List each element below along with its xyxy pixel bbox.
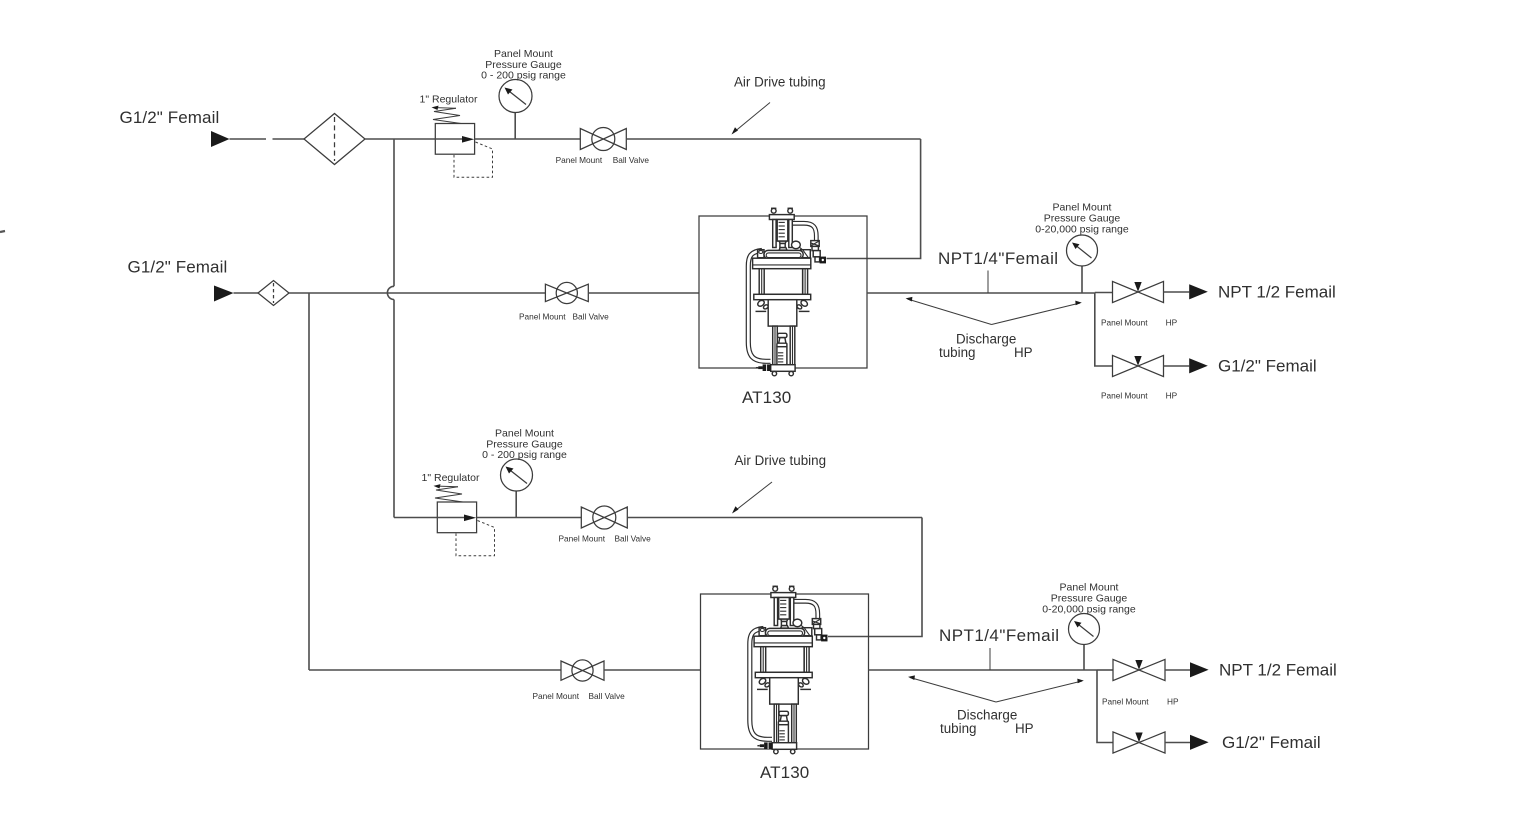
svg-text:0 - 200 psig range: 0 - 200 psig range: [482, 449, 567, 461]
wire discharge 1: [867, 292, 1095, 294]
wire air drive down 1: [827, 139, 921, 259]
svg-text:HP: HP: [1166, 391, 1178, 401]
ball valve BV4: [561, 661, 583, 680]
regulator R2 spring: [435, 487, 463, 502]
ball valve BV1: [580, 129, 603, 150]
wire HP valve4 out: [1165, 742, 1190, 744]
wire HP valve3 out: [1165, 669, 1190, 671]
svg-text:Panel Mount: Panel Mount: [519, 312, 566, 322]
svg-text:1" Regulator: 1" Regulator: [422, 472, 481, 484]
air drive arrow 1: [733, 103, 770, 134]
outlet arrow 3: [1190, 662, 1209, 677]
wire tee to HP valve3: [1097, 669, 1113, 671]
svg-text:Ball Valve: Ball Valve: [615, 534, 652, 544]
gauge PG2: [1067, 235, 1098, 266]
svg-text:AT130: AT130: [760, 763, 809, 782]
svg-text:1" Regulator: 1" Regulator: [420, 94, 479, 106]
svg-text:NPT1/4"Femail: NPT1/4"Femail: [938, 249, 1059, 268]
svg-text:Ball Valve: Ball Valve: [613, 155, 650, 165]
wire inlet 2: [234, 292, 259, 294]
wire branch corner to regulator2: [394, 517, 437, 519]
HP valve V1: [1113, 281, 1139, 302]
outlet arrow 2: [1189, 358, 1208, 373]
wire HP valve2 out: [1164, 365, 1190, 367]
regulator R1 dashed pilot line: [454, 142, 493, 177]
wire regulator1 to ball valve1: [475, 138, 581, 140]
gauge PG3 stem: [515, 491, 517, 518]
wire mid branch to ball valve4: [309, 669, 561, 671]
wire ball valve3 to corner: [627, 517, 922, 519]
HP valve V3: [1113, 659, 1139, 680]
wire ball valve1 to corner: [626, 138, 920, 140]
pump U1 AT130: [748, 208, 826, 375]
wire pump branch vertical (x=309): [308, 293, 310, 670]
wire air branch vertical (x=394) upper: [393, 139, 395, 286]
wire filter2 to ball valve2: [289, 292, 545, 294]
regulator R1 body: [435, 124, 474, 155]
svg-text:0 - 200 psig range: 0 - 200 psig range: [481, 70, 566, 82]
svg-text:tubing: tubing: [940, 721, 976, 736]
HP valve V2: [1113, 355, 1139, 376]
wire hop over mid pipe: [387, 286, 394, 299]
wire inlet 1 segment a: [230, 138, 267, 140]
svg-text:NPT 1/2 Femail: NPT 1/2 Femail: [1219, 661, 1337, 680]
pump U2 AT130: [750, 586, 828, 754]
svg-text:G1/2" Femail: G1/2" Femail: [1222, 733, 1321, 752]
svg-text:G1/2" Femail: G1/2" Femail: [128, 258, 228, 277]
outlet arrow 4: [1190, 735, 1209, 750]
wire HP valve1 out: [1164, 291, 1190, 293]
discharge pointer arrows no.2: [910, 678, 996, 703]
wire air branch vertical (x=394) lower: [393, 300, 395, 518]
svg-text:AT130: AT130: [742, 388, 791, 407]
svg-text:Panel Mount: Panel Mount: [1101, 318, 1148, 328]
svg-text:Panel Mount: Panel Mount: [559, 534, 606, 544]
svg-text:0-20,000 psig range: 0-20,000 psig range: [1042, 603, 1136, 615]
svg-text:Panel Mount: Panel Mount: [1101, 391, 1148, 401]
ball valve BV3: [581, 507, 604, 528]
gauge PG3: [501, 459, 533, 491]
HP valve V4: [1113, 732, 1139, 753]
filter F1: [304, 114, 365, 165]
svg-text:G1/2" Femail: G1/2" Femail: [1218, 357, 1317, 376]
pump1 enclosure box: [699, 216, 867, 368]
svg-text:Air Drive tubing: Air Drive tubing: [735, 453, 827, 468]
svg-text:Ball Valve: Ball Valve: [573, 312, 610, 322]
node tick NPT1/4 no.1: [987, 271, 989, 294]
regulator R2 body: [437, 502, 476, 533]
svg-text:0-20,000 psig range: 0-20,000 psig range: [1035, 223, 1129, 235]
svg-text:Panel Mount: Panel Mount: [533, 691, 580, 701]
filter F2: [258, 281, 289, 306]
node tick NPT1/4 no.2: [989, 648, 991, 670]
gauge PG4: [1069, 614, 1100, 645]
ball valve BV2: [545, 284, 566, 301]
edge tick left margin: [0, 231, 5, 232]
svg-text:Panel Mount: Panel Mount: [556, 155, 603, 165]
regulator R1 spring: [433, 108, 461, 123]
gauge PG2 stem: [1081, 266, 1083, 294]
air drive arrow 2: [734, 482, 773, 512]
svg-text:NPT 1/2 Femail: NPT 1/2 Femail: [1218, 283, 1336, 302]
pump2 enclosure box: [701, 594, 869, 749]
svg-text:G1/2" Femail: G1/2" Femail: [120, 108, 220, 127]
discharge pointer arrows no.1: [908, 299, 992, 325]
wire regulator2 to ball valve3: [477, 517, 582, 519]
gauge PG1 stem: [514, 113, 516, 140]
svg-text:Ball Valve: Ball Valve: [589, 691, 626, 701]
gauge PG4 stem: [1083, 644, 1085, 670]
svg-text:HP: HP: [1167, 697, 1179, 707]
wire inlet 1 segment b: [273, 138, 305, 140]
wire filter1 to regulator1: [365, 138, 435, 140]
regulator R2 dashed pilot line: [456, 521, 495, 556]
svg-text:tubing: tubing: [939, 345, 975, 360]
wire tee to HP valve1: [1095, 292, 1113, 294]
svg-text:HP: HP: [1166, 318, 1178, 328]
svg-text:Air Drive tubing: Air Drive tubing: [734, 75, 826, 90]
svg-text:HP: HP: [1015, 721, 1034, 736]
svg-text:HP: HP: [1014, 345, 1033, 360]
wire discharge 2: [869, 669, 1098, 671]
svg-text:Panel Mount: Panel Mount: [1102, 697, 1149, 707]
inlet arrow 1: [211, 131, 230, 147]
svg-text:NPT1/4"Femail: NPT1/4"Femail: [939, 626, 1060, 645]
wire tee down no.1: [1095, 293, 1113, 367]
inlet arrow 2: [214, 286, 234, 302]
wire ball valve4 to pump2 box: [604, 669, 701, 671]
wire tee down no.2: [1097, 670, 1113, 743]
outlet arrow 1: [1189, 284, 1208, 299]
wire ball valve2 to pump1 box: [588, 292, 699, 294]
wire air drive down 2: [828, 518, 922, 637]
gauge PG1: [499, 80, 532, 113]
